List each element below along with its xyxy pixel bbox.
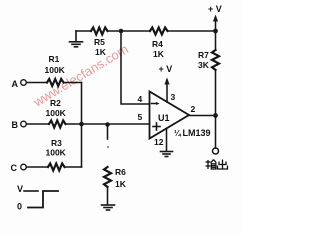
svg-text:12: 12: [154, 137, 164, 147]
resistor R6: [104, 167, 111, 187]
svg-text:C: C: [11, 163, 18, 173]
svg-text:100K: 100K: [46, 108, 67, 118]
node summing junction: [79, 122, 84, 127]
svg-text:R5: R5: [94, 37, 105, 47]
svg-text:5: 5: [138, 112, 143, 122]
svg-text:R1: R1: [49, 54, 60, 64]
wire to R6 (broken in scan): [107, 125, 109, 140]
svg-text:B: B: [12, 120, 19, 130]
ground below R6: [102, 205, 115, 210]
output terminal: [213, 148, 219, 154]
svg-text:V: V: [17, 184, 23, 194]
wire to output terminal: [215, 116, 217, 149]
resistor R3: [48, 164, 65, 171]
svg-text:LM139: LM139: [183, 128, 211, 138]
wire R4 to +V node: [168, 30, 216, 32]
svg-text:100K: 100K: [45, 65, 66, 75]
ground: [70, 31, 83, 47]
svg-text:3: 3: [171, 92, 176, 102]
svg-text:1K: 1K: [153, 49, 165, 59]
svg-text:100K: 100K: [46, 148, 67, 158]
node R6 junction: [105, 122, 110, 127]
svg-text:2: 2: [191, 104, 196, 114]
svg-text:R7: R7: [198, 50, 209, 60]
glyph 出: [222, 160, 224, 170]
wire pin4 feed from bus: [121, 31, 150, 104]
svg-text:+ V: + V: [208, 4, 222, 14]
wire A to R1: [26, 82, 47, 84]
svg-text:3K: 3K: [198, 60, 210, 70]
plus input marker: [153, 123, 160, 130]
wire R2 to pin 5: [66, 123, 150, 125]
glyph 输: [206, 161, 211, 163]
svg-text:4: 4: [138, 94, 143, 104]
wire pin 2 output: [189, 115, 216, 117]
pin 3 supply: [166, 80, 168, 102]
resistor R4: [150, 28, 168, 35]
svg-text:R3: R3: [51, 138, 62, 148]
node +V junction: [213, 29, 218, 34]
svg-text:U1: U1: [158, 113, 170, 123]
svg-text:+ V: + V: [159, 64, 173, 74]
wire C to R3: [26, 166, 48, 168]
wire R3 to summing bus: [65, 166, 82, 168]
svg-text:1K: 1K: [115, 179, 127, 189]
resistor R1: [47, 79, 64, 86]
wire vertical summing bus: [81, 83, 83, 168]
wire top bus left segment: [76, 30, 91, 32]
wire R1 to summing bus: [64, 82, 82, 84]
power +V top right: [215, 19, 217, 31]
pin 12: [166, 129, 168, 152]
minus input marker: [152, 103, 158, 105]
svg-text:R6: R6: [115, 167, 126, 177]
svg-text:A: A: [12, 79, 19, 89]
wire B to R2: [26, 123, 49, 125]
op-amp U1: [150, 92, 190, 139]
ground below pin 12: [161, 152, 173, 157]
node junction R5/R4: [119, 29, 124, 34]
resistor R7: [215, 31, 217, 50]
output label 输出 (drawn glyphs): [206, 160, 228, 170]
wire bus R5 to R4: [108, 30, 151, 32]
svg-text:0: 0: [17, 202, 22, 212]
svg-text:R4: R4: [152, 39, 163, 49]
node output junction: [213, 113, 218, 118]
resistor R2: [49, 121, 66, 128]
resistor R5: [91, 28, 108, 35]
